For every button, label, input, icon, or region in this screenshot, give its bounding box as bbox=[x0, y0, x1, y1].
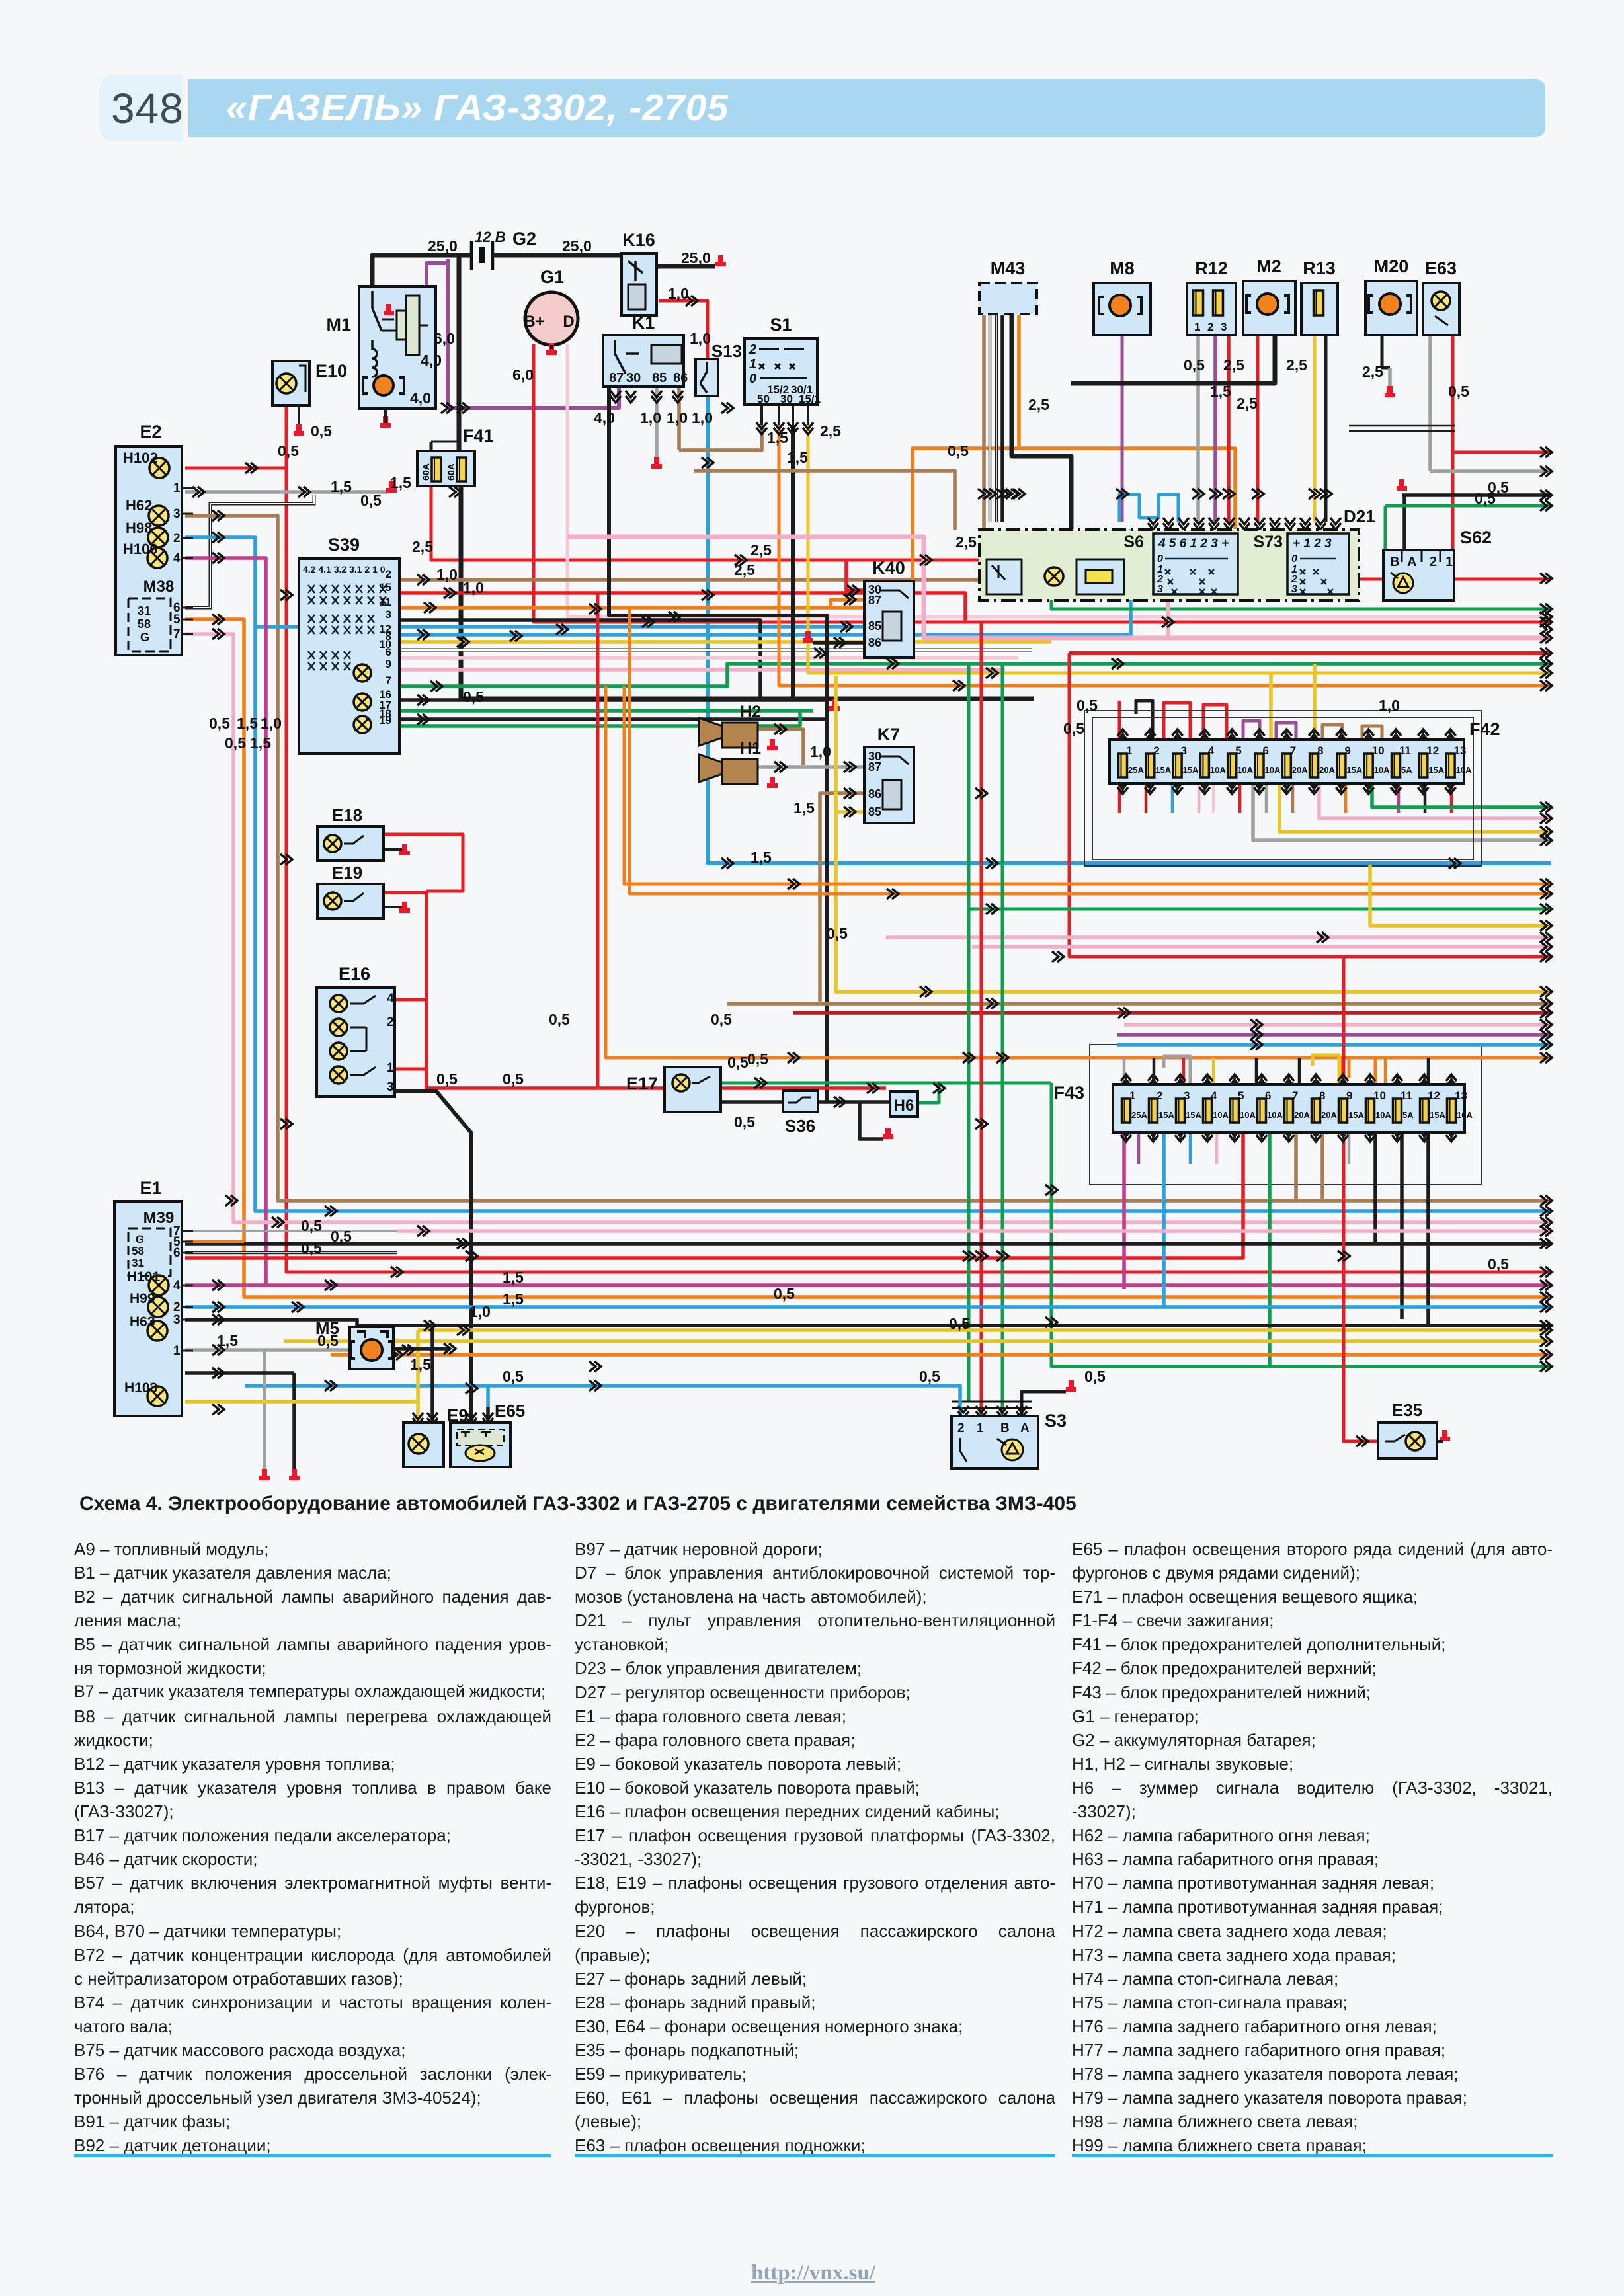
svg-text:4: 4 bbox=[387, 992, 394, 1006]
svg-text:12: 12 bbox=[1426, 744, 1439, 757]
svg-text:2: 2 bbox=[173, 1300, 181, 1314]
svg-text:3: 3 bbox=[173, 507, 181, 521]
svg-text:1,0: 1,0 bbox=[667, 409, 688, 426]
svg-text:1,0: 1,0 bbox=[436, 566, 458, 583]
svg-text:1,5: 1,5 bbox=[793, 799, 815, 816]
svg-text:H63: H63 bbox=[130, 1314, 155, 1329]
svg-text:2,5: 2,5 bbox=[751, 541, 772, 559]
svg-text:H102: H102 bbox=[123, 450, 158, 466]
svg-text:13: 13 bbox=[1455, 1089, 1467, 1102]
svg-text:S6: S6 bbox=[1123, 533, 1144, 551]
svg-text:M2: M2 bbox=[1256, 257, 1281, 276]
svg-text:4,0: 4,0 bbox=[421, 352, 442, 369]
svg-text:R13: R13 bbox=[1303, 258, 1336, 278]
svg-text:6: 6 bbox=[386, 646, 391, 658]
svg-text:4,0: 4,0 bbox=[594, 409, 615, 426]
svg-text:1: 1 bbox=[173, 481, 181, 495]
svg-text:1,0: 1,0 bbox=[261, 715, 282, 732]
svg-text:4.2 4.1 3.2 3.1 2 1 0: 4.2 4.1 3.2 3.1 2 1 0 bbox=[303, 564, 386, 574]
svg-text:20A: 20A bbox=[1321, 1110, 1337, 1120]
svg-text:20A: 20A bbox=[1292, 765, 1308, 775]
svg-text:20A: 20A bbox=[1319, 765, 1335, 775]
svg-text:0,5: 0,5 bbox=[1488, 1255, 1509, 1273]
svg-text:0,5: 0,5 bbox=[949, 1315, 970, 1332]
svg-text:9: 9 bbox=[1346, 1089, 1352, 1102]
svg-text:15A: 15A bbox=[1348, 1110, 1364, 1120]
svg-text:4 5 6 1 2 3 +: 4 5 6 1 2 3 + bbox=[1158, 537, 1229, 551]
svg-text:0,5: 0,5 bbox=[317, 1332, 339, 1349]
svg-text:85: 85 bbox=[868, 805, 881, 818]
svg-text:0,5: 0,5 bbox=[1184, 356, 1205, 374]
svg-text:15: 15 bbox=[379, 581, 391, 594]
svg-text:S62: S62 bbox=[1460, 528, 1492, 547]
svg-text:85: 85 bbox=[652, 371, 667, 385]
svg-text:1,5: 1,5 bbox=[250, 734, 271, 752]
svg-text:S1: S1 bbox=[770, 315, 792, 335]
svg-text:M39: M39 bbox=[143, 1209, 175, 1227]
svg-text:87: 87 bbox=[868, 760, 881, 773]
svg-text:86: 86 bbox=[673, 371, 688, 385]
svg-text:15A: 15A bbox=[1428, 765, 1444, 775]
svg-text:5: 5 bbox=[1238, 1089, 1244, 1102]
svg-text:1: 1 bbox=[1129, 1089, 1135, 1102]
svg-text:1,0: 1,0 bbox=[1379, 697, 1400, 714]
svg-text:0,5: 0,5 bbox=[919, 1368, 940, 1385]
svg-text:58: 58 bbox=[132, 1245, 144, 1257]
svg-text:10A: 10A bbox=[1456, 765, 1472, 775]
svg-text:0,5: 0,5 bbox=[549, 1011, 570, 1028]
svg-text:50: 50 bbox=[757, 393, 770, 405]
svg-text:M20: M20 bbox=[1374, 257, 1409, 276]
svg-text:2,5: 2,5 bbox=[1028, 396, 1049, 413]
svg-text:1: 1 bbox=[173, 1344, 181, 1358]
svg-text:E35: E35 bbox=[1392, 1400, 1422, 1420]
svg-text:1,0: 1,0 bbox=[690, 330, 711, 347]
svg-text:0,5: 0,5 bbox=[225, 734, 246, 752]
svg-text:1: 1 bbox=[1126, 744, 1132, 757]
svg-text:H6: H6 bbox=[894, 1097, 914, 1115]
svg-text:12 В: 12 В bbox=[475, 229, 506, 245]
svg-text:1,5: 1,5 bbox=[390, 474, 411, 491]
svg-text:7: 7 bbox=[386, 674, 391, 687]
svg-text:30: 30 bbox=[780, 393, 793, 405]
svg-text:2,5: 2,5 bbox=[1237, 395, 1258, 412]
svg-text:1,5: 1,5 bbox=[331, 478, 352, 495]
svg-text:K7: K7 bbox=[877, 725, 901, 744]
svg-text:9: 9 bbox=[1344, 744, 1350, 757]
svg-text:7: 7 bbox=[1292, 1089, 1298, 1102]
svg-text:10: 10 bbox=[1372, 744, 1385, 757]
svg-text:E65: E65 bbox=[495, 1401, 525, 1421]
svg-text:M38: M38 bbox=[143, 578, 175, 596]
svg-text:2: 2 bbox=[1157, 1089, 1162, 1102]
svg-text:S36: S36 bbox=[785, 1116, 815, 1136]
svg-text:10A: 10A bbox=[1210, 765, 1226, 775]
svg-text:H62: H62 bbox=[126, 497, 152, 514]
svg-text:S3: S3 bbox=[1045, 1411, 1067, 1431]
svg-text:0,5: 0,5 bbox=[311, 422, 332, 440]
svg-text:1,0: 1,0 bbox=[640, 409, 661, 426]
svg-text:85: 85 bbox=[868, 619, 881, 633]
svg-text:G1: G1 bbox=[540, 267, 564, 287]
svg-text:F43: F43 bbox=[1053, 1083, 1084, 1103]
svg-text:1,5: 1,5 bbox=[751, 849, 772, 866]
svg-text:0,5: 0,5 bbox=[301, 1217, 322, 1234]
svg-text:0,5: 0,5 bbox=[360, 492, 382, 509]
svg-text:3: 3 bbox=[173, 1313, 181, 1327]
svg-text:H2: H2 bbox=[740, 703, 761, 721]
svg-text:H103: H103 bbox=[124, 1380, 157, 1396]
svg-text:4: 4 bbox=[173, 1279, 181, 1292]
svg-text:B+: B+ bbox=[524, 313, 544, 331]
svg-text:1,0: 1,0 bbox=[810, 743, 831, 760]
svg-text:1,5: 1,5 bbox=[503, 1269, 524, 1286]
svg-text:1,5: 1,5 bbox=[410, 1356, 431, 1373]
svg-text:2,5: 2,5 bbox=[734, 561, 755, 578]
svg-text:2: 2 bbox=[1207, 321, 1213, 333]
svg-text:1: 1 bbox=[977, 1421, 984, 1435]
svg-text:0,5: 0,5 bbox=[1475, 490, 1496, 507]
svg-text:6,0: 6,0 bbox=[512, 366, 534, 383]
svg-text:G: G bbox=[140, 631, 149, 644]
svg-text:10A: 10A bbox=[1237, 765, 1253, 775]
svg-text:8: 8 bbox=[1319, 1089, 1325, 1102]
svg-text:4: 4 bbox=[1211, 1089, 1217, 1102]
svg-text:H100: H100 bbox=[123, 541, 158, 557]
svg-text:0,5: 0,5 bbox=[948, 442, 969, 459]
svg-text:0,5: 0,5 bbox=[774, 1285, 795, 1302]
svg-text:10A: 10A bbox=[1374, 765, 1390, 775]
svg-text:1: 1 bbox=[1445, 555, 1453, 569]
svg-text:15A: 15A bbox=[1183, 765, 1199, 775]
svg-text:87: 87 bbox=[868, 594, 881, 607]
svg-text:6: 6 bbox=[173, 1246, 181, 1260]
svg-text:10A: 10A bbox=[1213, 1110, 1229, 1120]
svg-text:10A: 10A bbox=[1240, 1110, 1256, 1120]
svg-text:R12: R12 bbox=[1195, 258, 1228, 278]
svg-text:0,5: 0,5 bbox=[301, 1240, 322, 1257]
svg-text:31: 31 bbox=[132, 1257, 144, 1269]
svg-text:A: A bbox=[1407, 555, 1416, 569]
svg-text:B: B bbox=[1000, 1421, 1010, 1435]
svg-text:2: 2 bbox=[1430, 555, 1437, 569]
svg-text:G2: G2 bbox=[512, 229, 536, 249]
svg-text:5: 5 bbox=[1235, 744, 1241, 757]
svg-text:2: 2 bbox=[957, 1421, 965, 1435]
svg-text:M1: M1 bbox=[326, 315, 351, 335]
svg-text:6,0: 6,0 bbox=[434, 330, 455, 347]
svg-text:4,0: 4,0 bbox=[410, 389, 431, 407]
svg-text:E1: E1 bbox=[140, 1178, 161, 1198]
svg-text:86: 86 bbox=[868, 787, 881, 801]
svg-text:10A: 10A bbox=[1267, 1110, 1283, 1120]
svg-text:1: 1 bbox=[387, 1061, 394, 1075]
svg-text:E18: E18 bbox=[332, 805, 362, 825]
svg-text:11: 11 bbox=[380, 596, 391, 608]
svg-text:D: D bbox=[563, 313, 574, 331]
svg-text:15A: 15A bbox=[1158, 1110, 1174, 1120]
svg-text:10: 10 bbox=[1373, 1089, 1386, 1102]
svg-text:9: 9 bbox=[386, 658, 391, 670]
svg-text:10A: 10A bbox=[1457, 1110, 1473, 1120]
svg-text:25,0: 25,0 bbox=[428, 237, 458, 255]
svg-text:0: 0 bbox=[1157, 553, 1163, 565]
svg-text:13: 13 bbox=[1454, 744, 1467, 757]
svg-text:1,0: 1,0 bbox=[463, 579, 484, 596]
svg-text:19: 19 bbox=[379, 714, 391, 727]
svg-text:A: A bbox=[1020, 1421, 1030, 1435]
svg-text:1,0: 1,0 bbox=[692, 409, 713, 426]
svg-text:2: 2 bbox=[1153, 744, 1159, 757]
svg-text:10A: 10A bbox=[1265, 765, 1281, 775]
svg-text:1,5: 1,5 bbox=[503, 1290, 524, 1308]
svg-text:0,5: 0,5 bbox=[503, 1368, 524, 1385]
svg-text:1,5: 1,5 bbox=[787, 449, 808, 466]
svg-text:3: 3 bbox=[387, 1080, 394, 1094]
svg-text:0,5: 0,5 bbox=[747, 1050, 768, 1068]
svg-text:4: 4 bbox=[173, 551, 181, 565]
svg-text:2,5: 2,5 bbox=[820, 422, 841, 440]
svg-text:15A: 15A bbox=[1430, 1110, 1445, 1120]
svg-text:E17: E17 bbox=[626, 1074, 658, 1093]
svg-text:0: 0 bbox=[749, 372, 756, 386]
svg-text:0,5: 0,5 bbox=[1063, 720, 1084, 737]
svg-text:K1: K1 bbox=[632, 313, 655, 333]
svg-text:10A: 10A bbox=[1375, 1110, 1391, 1120]
svg-text:2,5: 2,5 bbox=[955, 534, 977, 551]
svg-text:E63: E63 bbox=[1425, 258, 1457, 278]
svg-text:15A: 15A bbox=[1155, 765, 1171, 775]
svg-text:2: 2 bbox=[173, 532, 181, 545]
svg-text:2,5: 2,5 bbox=[412, 538, 433, 555]
svg-text:25,0: 25,0 bbox=[562, 237, 592, 255]
svg-text:K16: K16 bbox=[622, 230, 655, 250]
svg-text:11: 11 bbox=[1399, 744, 1411, 757]
svg-text:60A: 60A bbox=[446, 463, 456, 481]
svg-text:0,5: 0,5 bbox=[734, 1113, 755, 1130]
svg-text:7: 7 bbox=[1290, 744, 1296, 757]
svg-text:0,5: 0,5 bbox=[463, 688, 484, 705]
svg-text:1,0: 1,0 bbox=[469, 1303, 491, 1320]
svg-text:87: 87 bbox=[609, 371, 624, 385]
svg-text:31: 31 bbox=[138, 604, 151, 617]
svg-text:H99: H99 bbox=[130, 1291, 155, 1306]
svg-text:1: 1 bbox=[749, 357, 756, 372]
svg-text:2,5: 2,5 bbox=[1223, 356, 1244, 374]
svg-text:3: 3 bbox=[1184, 1089, 1190, 1102]
svg-text:E2: E2 bbox=[140, 422, 161, 442]
svg-text:M8: M8 bbox=[1110, 258, 1135, 278]
svg-text:15/1: 15/1 bbox=[799, 393, 821, 405]
svg-text:M43: M43 bbox=[991, 258, 1026, 278]
svg-text:0,5: 0,5 bbox=[1084, 1368, 1106, 1385]
svg-text:F41: F41 bbox=[463, 426, 494, 446]
svg-text:3: 3 bbox=[1221, 321, 1227, 333]
svg-text:E19: E19 bbox=[332, 863, 362, 883]
svg-text:0,5: 0,5 bbox=[331, 1228, 352, 1245]
svg-text:12: 12 bbox=[1428, 1089, 1440, 1102]
svg-text:1,5: 1,5 bbox=[217, 1332, 238, 1349]
svg-text:25A: 25A bbox=[1131, 1110, 1147, 1120]
svg-text:0,5: 0,5 bbox=[711, 1011, 732, 1028]
svg-text:6: 6 bbox=[1265, 1089, 1271, 1102]
svg-text:K40: K40 bbox=[872, 558, 905, 578]
svg-text:H98: H98 bbox=[126, 520, 152, 536]
svg-text:+ 1 2 3: + 1 2 3 bbox=[1293, 537, 1332, 551]
svg-text:0,5: 0,5 bbox=[278, 442, 299, 459]
svg-text:1,5: 1,5 bbox=[767, 429, 788, 446]
svg-text:25,0: 25,0 bbox=[681, 249, 711, 266]
svg-text:15A: 15A bbox=[1346, 765, 1362, 775]
svg-text:0: 0 bbox=[1291, 553, 1297, 565]
svg-text:86: 86 bbox=[868, 636, 881, 649]
svg-text:3: 3 bbox=[1181, 744, 1187, 757]
svg-text:0,5: 0,5 bbox=[1076, 697, 1098, 714]
svg-text:6: 6 bbox=[1263, 744, 1269, 757]
svg-text:1,5: 1,5 bbox=[1210, 383, 1231, 400]
svg-text:0,5: 0,5 bbox=[209, 715, 230, 732]
svg-text:58: 58 bbox=[138, 617, 151, 631]
svg-text:H1: H1 bbox=[740, 739, 761, 758]
svg-text:0,5: 0,5 bbox=[503, 1070, 524, 1088]
svg-text:25A: 25A bbox=[1128, 765, 1144, 775]
svg-text:D21: D21 bbox=[1344, 506, 1375, 526]
svg-text:0,5: 0,5 bbox=[827, 925, 848, 942]
svg-text:E10: E10 bbox=[315, 361, 347, 381]
svg-text:11: 11 bbox=[1401, 1089, 1412, 1102]
svg-text:5A: 5A bbox=[1402, 1110, 1414, 1120]
svg-text:F42: F42 bbox=[1469, 719, 1500, 739]
svg-text:3: 3 bbox=[1291, 584, 1297, 595]
svg-text:S73: S73 bbox=[1254, 533, 1283, 551]
svg-text:H101: H101 bbox=[127, 1269, 161, 1285]
svg-text:S39: S39 bbox=[328, 535, 360, 555]
svg-text:0,5: 0,5 bbox=[1448, 383, 1469, 400]
svg-text:2,5: 2,5 bbox=[1286, 356, 1307, 374]
svg-text:S13: S13 bbox=[711, 341, 742, 361]
svg-text:3: 3 bbox=[386, 608, 391, 621]
svg-text:E16: E16 bbox=[339, 964, 370, 984]
svg-text:2,5: 2,5 bbox=[1362, 363, 1383, 380]
svg-text:2: 2 bbox=[749, 342, 756, 357]
svg-text:1,5: 1,5 bbox=[237, 715, 258, 732]
svg-text:7: 7 bbox=[173, 627, 181, 641]
svg-text:30: 30 bbox=[626, 371, 641, 385]
svg-text:3: 3 bbox=[1157, 584, 1163, 595]
svg-text:5A: 5A bbox=[1401, 765, 1412, 775]
svg-text:0,5: 0,5 bbox=[727, 1054, 749, 1071]
svg-text:20A: 20A bbox=[1294, 1110, 1310, 1120]
svg-text:5: 5 bbox=[173, 613, 181, 627]
svg-text:B: B bbox=[1390, 555, 1399, 569]
svg-text:2: 2 bbox=[386, 568, 391, 580]
svg-text:8: 8 bbox=[1317, 744, 1323, 757]
svg-text:1: 1 bbox=[1194, 321, 1200, 333]
svg-text:G: G bbox=[136, 1233, 144, 1246]
svg-text:0,5: 0,5 bbox=[436, 1070, 458, 1088]
svg-text:60A: 60A bbox=[421, 463, 431, 481]
svg-text:15A: 15A bbox=[1186, 1110, 1201, 1120]
svg-text:1,0: 1,0 bbox=[668, 285, 689, 302]
svg-text:4: 4 bbox=[1208, 744, 1215, 757]
svg-text:2: 2 bbox=[387, 1015, 394, 1029]
